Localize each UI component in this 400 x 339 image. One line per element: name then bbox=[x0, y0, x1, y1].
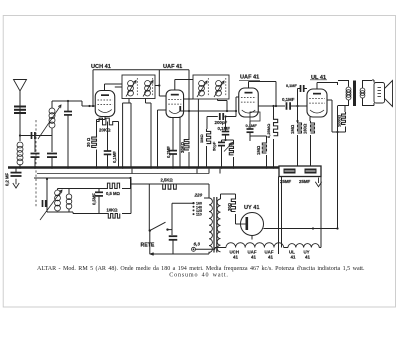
wire screen UL41 bbox=[327, 99, 332, 101]
variable capacitor VC2 bbox=[51, 128, 53, 152]
wire anode UCH to T1 bbox=[115, 86, 122, 88]
wire antenna lead bbox=[19, 91, 21, 141]
svg-text:220: 220 bbox=[194, 193, 203, 198]
heater filaments group 3 bbox=[264, 243, 283, 248]
svg-text:50pF: 50pF bbox=[212, 141, 217, 151]
electrolytic box bbox=[279, 166, 321, 177]
svg-text:0,1MF: 0,1MF bbox=[112, 151, 117, 163]
wire mains rail bbox=[149, 231, 151, 254]
svg-text:Consumo 40 watt.: Consumo 40 watt. bbox=[169, 273, 229, 279]
wire UAF1 top cap to T2 bbox=[174, 80, 176, 91]
IF transformer T2 box bbox=[193, 75, 229, 99]
wire box down right bbox=[320, 177, 322, 248]
wire screen drop bbox=[118, 122, 120, 168]
wire B+ vertical bbox=[337, 106, 339, 229]
wire detector line bbox=[207, 116, 218, 118]
wire tap to switch bbox=[172, 202, 194, 204]
resistor 30Ohm surge bbox=[231, 197, 235, 212]
coil tone bbox=[55, 190, 61, 196]
tube UL41 bbox=[307, 89, 327, 117]
tube UY41 bbox=[241, 213, 264, 236]
wire speaker link bbox=[372, 79, 374, 81]
core bar bbox=[353, 81, 356, 107]
wire box down left bbox=[278, 177, 280, 255]
arrow T2 secondary bbox=[214, 81, 224, 97]
capacitor grid UL41 bbox=[297, 89, 299, 107]
wire anode UL41 bbox=[316, 83, 318, 90]
wire T1 out bottom 1b bbox=[130, 103, 132, 168]
tube UAF41 first bbox=[166, 90, 184, 118]
wire T1 to UAF grid bbox=[155, 85, 159, 87]
resistor 160Ohm cathode bbox=[309, 117, 311, 121]
capacitor C3 bbox=[67, 101, 69, 111]
arrow T2 primary bbox=[197, 81, 207, 97]
core T1 dashed bbox=[136, 78, 138, 96]
transformer core bbox=[213, 197, 215, 253]
wire T1 out bottom 2 bbox=[145, 99, 147, 104]
wire surge to transformer bbox=[235, 194, 237, 197]
capacitor 0,1MF coupling bbox=[286, 102, 288, 110]
svg-text:1MΩ: 1MΩ bbox=[290, 124, 295, 134]
arrow T1 primary bbox=[126, 81, 136, 97]
terminal 6,3 bbox=[192, 247, 196, 251]
tone box left bbox=[46, 179, 48, 188]
wire anode top UAF2 bbox=[248, 82, 250, 89]
svg-text:110: 110 bbox=[196, 213, 202, 217]
wire AVC drop to 30K bbox=[188, 70, 190, 111]
wire T2 bottom out right bbox=[217, 99, 219, 101]
heater filaments group 5 bbox=[304, 244, 320, 248]
taps voltages bbox=[193, 202, 195, 204]
wire UY41 output bbox=[264, 228, 338, 230]
capacitor tone bbox=[42, 200, 44, 207]
transformer primary winding bbox=[209, 198, 212, 252]
tuning gang dashed link bbox=[35, 120, 37, 207]
wire L1 to bus bbox=[19, 164, 21, 168]
resistor 0,5MOhm bbox=[105, 183, 120, 188]
heater filaments group 2 bbox=[245, 243, 264, 248]
speaker box bbox=[374, 83, 385, 104]
wire AVC top line bbox=[93, 69, 189, 71]
wire label drop UCH bbox=[92, 70, 94, 106]
resistor 0,25MOhm bbox=[273, 106, 275, 116]
svg-text:30 Ω: 30 Ω bbox=[86, 137, 91, 147]
resistor 1MOhm diode load bbox=[206, 117, 208, 130]
wire grid top bbox=[51, 101, 53, 109]
svg-text:UY 41: UY 41 bbox=[244, 205, 259, 211]
wire switch feeder bbox=[148, 184, 150, 231]
svg-text:0,1MF: 0,1MF bbox=[282, 97, 295, 102]
arrow T1 secondary bbox=[143, 81, 153, 97]
wire AVC drop to T1 grid bbox=[158, 70, 160, 86]
output transformer primary bbox=[338, 81, 349, 87]
capacitor 0,1MF det bbox=[225, 117, 227, 132]
capacitor 0,1MF cathode bbox=[107, 122, 109, 151]
resistor 10KOhm bbox=[72, 212, 74, 214]
heater filaments group 1 bbox=[226, 243, 245, 248]
svg-text:41: 41 bbox=[268, 255, 273, 260]
wire AF out bbox=[258, 105, 285, 107]
wire diode line bbox=[181, 110, 236, 112]
capacitor 50pF bbox=[222, 139, 226, 141]
capacitor trimmer C2 bbox=[31, 132, 33, 139]
transformer secondary winding bbox=[217, 199, 220, 252]
core T2 dashed bbox=[207, 78, 209, 96]
svg-text:30KΩ: 30KΩ bbox=[180, 141, 185, 153]
capacitor 25MF second bbox=[305, 169, 317, 174]
capacitor mains bbox=[169, 235, 178, 237]
svg-text:0,1MF: 0,1MF bbox=[218, 126, 231, 131]
svg-text:1MΩ: 1MΩ bbox=[256, 145, 261, 155]
capacitor antenna series bbox=[14, 106, 26, 108]
capacitor 0,2MF bbox=[15, 168, 17, 173]
svg-text:0,1MF: 0,1MF bbox=[246, 123, 258, 128]
tube UCH41 bbox=[95, 91, 115, 117]
svg-text:41: 41 bbox=[291, 255, 296, 260]
wire cathode UAF1 left bbox=[158, 109, 167, 111]
wire line 2 bbox=[34, 177, 131, 179]
resistor 1000Ohm screen bbox=[344, 106, 346, 113]
coil T1 secondary bbox=[145, 81, 151, 87]
svg-text:UAF 41: UAF 41 bbox=[240, 75, 259, 81]
resistor 30KOhm bbox=[188, 110, 190, 112]
svg-text:41: 41 bbox=[251, 255, 256, 260]
potentiometer volume bbox=[233, 140, 235, 142]
wire mid horizontal bbox=[58, 188, 106, 190]
svg-text:10KΩ: 10KΩ bbox=[107, 208, 119, 213]
wire diode to UAF2 grid bbox=[235, 97, 237, 117]
coil L1 antenna bbox=[17, 142, 23, 148]
capacitor 200pF bbox=[219, 113, 221, 120]
svg-text:30Ω: 30Ω bbox=[227, 202, 232, 211]
svg-text:0,5MF: 0,5MF bbox=[92, 193, 97, 205]
wire line AVC bbox=[37, 173, 209, 175]
capacitor 0,5MF bbox=[98, 189, 100, 193]
antenna bbox=[14, 80, 27, 92]
arrow L2 trimmer bbox=[38, 105, 61, 139]
IF transformer T1 box bbox=[122, 75, 155, 99]
svg-text:41: 41 bbox=[305, 255, 310, 260]
bus chassis line bbox=[8, 166, 279, 169]
resistor 1MOhm grid bbox=[297, 106, 299, 121]
resistor 1MOhm under tube bbox=[262, 141, 266, 153]
capacitor 25MF first bbox=[284, 169, 296, 174]
svg-text:2,5KΩ: 2,5KΩ bbox=[161, 178, 174, 183]
capacitor 0,2MF cathode UAF1 bbox=[172, 118, 174, 151]
svg-text:25MF: 25MF bbox=[299, 179, 311, 184]
wire T1 out bottom 1 bbox=[128, 99, 130, 104]
svg-text:1MΩ: 1MΩ bbox=[199, 133, 204, 143]
svg-text:0,2 MF: 0,2 MF bbox=[5, 173, 10, 186]
svg-text:20KΩ: 20KΩ bbox=[99, 128, 111, 133]
svg-text:0,5 MΩ: 0,5 MΩ bbox=[106, 191, 120, 196]
svg-text:6,3: 6,3 bbox=[194, 242, 201, 247]
svg-text:0,25MΩ: 0,25MΩ bbox=[266, 123, 271, 138]
wire 6,3 to heaters bbox=[196, 248, 216, 250]
ground bbox=[15, 179, 17, 185]
svg-text:160Ω: 160Ω bbox=[303, 123, 308, 134]
switch lever bbox=[149, 229, 151, 231]
coil T2 secondary bbox=[216, 81, 222, 87]
wire to transformer top bbox=[208, 184, 210, 198]
coil T1 primary bbox=[128, 81, 134, 87]
svg-text:UCH 41: UCH 41 bbox=[91, 64, 111, 70]
coil tone 2 bbox=[66, 194, 72, 200]
output transformer secondary bbox=[363, 81, 373, 89]
resistor 20KOhm bbox=[104, 117, 106, 120]
svg-text:41: 41 bbox=[233, 255, 238, 260]
variable capacitor VC1 bbox=[34, 136, 36, 153]
wire top cap UCH to T1 bbox=[104, 84, 106, 90]
resistor 2,5KOhm bbox=[160, 184, 176, 189]
resistor 30Ohm bbox=[96, 122, 98, 136]
svg-text:0,2MF: 0,2MF bbox=[166, 146, 171, 158]
coil T2 primary bbox=[199, 81, 205, 87]
svg-text:UAF 41: UAF 41 bbox=[163, 64, 182, 70]
tube UAF41 second bbox=[239, 88, 259, 117]
wire heater gap bbox=[284, 247, 288, 249]
wire anode UAF1 to T2 bbox=[184, 98, 194, 100]
coil L2 oscillator bbox=[51, 128, 53, 136]
svg-text:0,1MF: 0,1MF bbox=[286, 84, 297, 88]
svg-text:ALTAR - Mod. RM 5 (AR 48).: ALTAR - Mod. RM 5 (AR 48). Onde medie da… bbox=[37, 265, 365, 272]
arrow tone bbox=[40, 190, 62, 220]
heater filaments group 4 bbox=[288, 244, 304, 248]
wire box down mid bbox=[281, 177, 283, 248]
wire T2 bottom out left bbox=[197, 99, 199, 168]
wire UAF1 pin to bus bbox=[179, 118, 181, 168]
wire coupling bbox=[20, 135, 52, 137]
svg-text:RETE: RETE bbox=[141, 243, 155, 249]
speaker cone bbox=[385, 81, 393, 107]
ground electrolytic bbox=[318, 178, 320, 184]
diode box bbox=[250, 112, 260, 121]
